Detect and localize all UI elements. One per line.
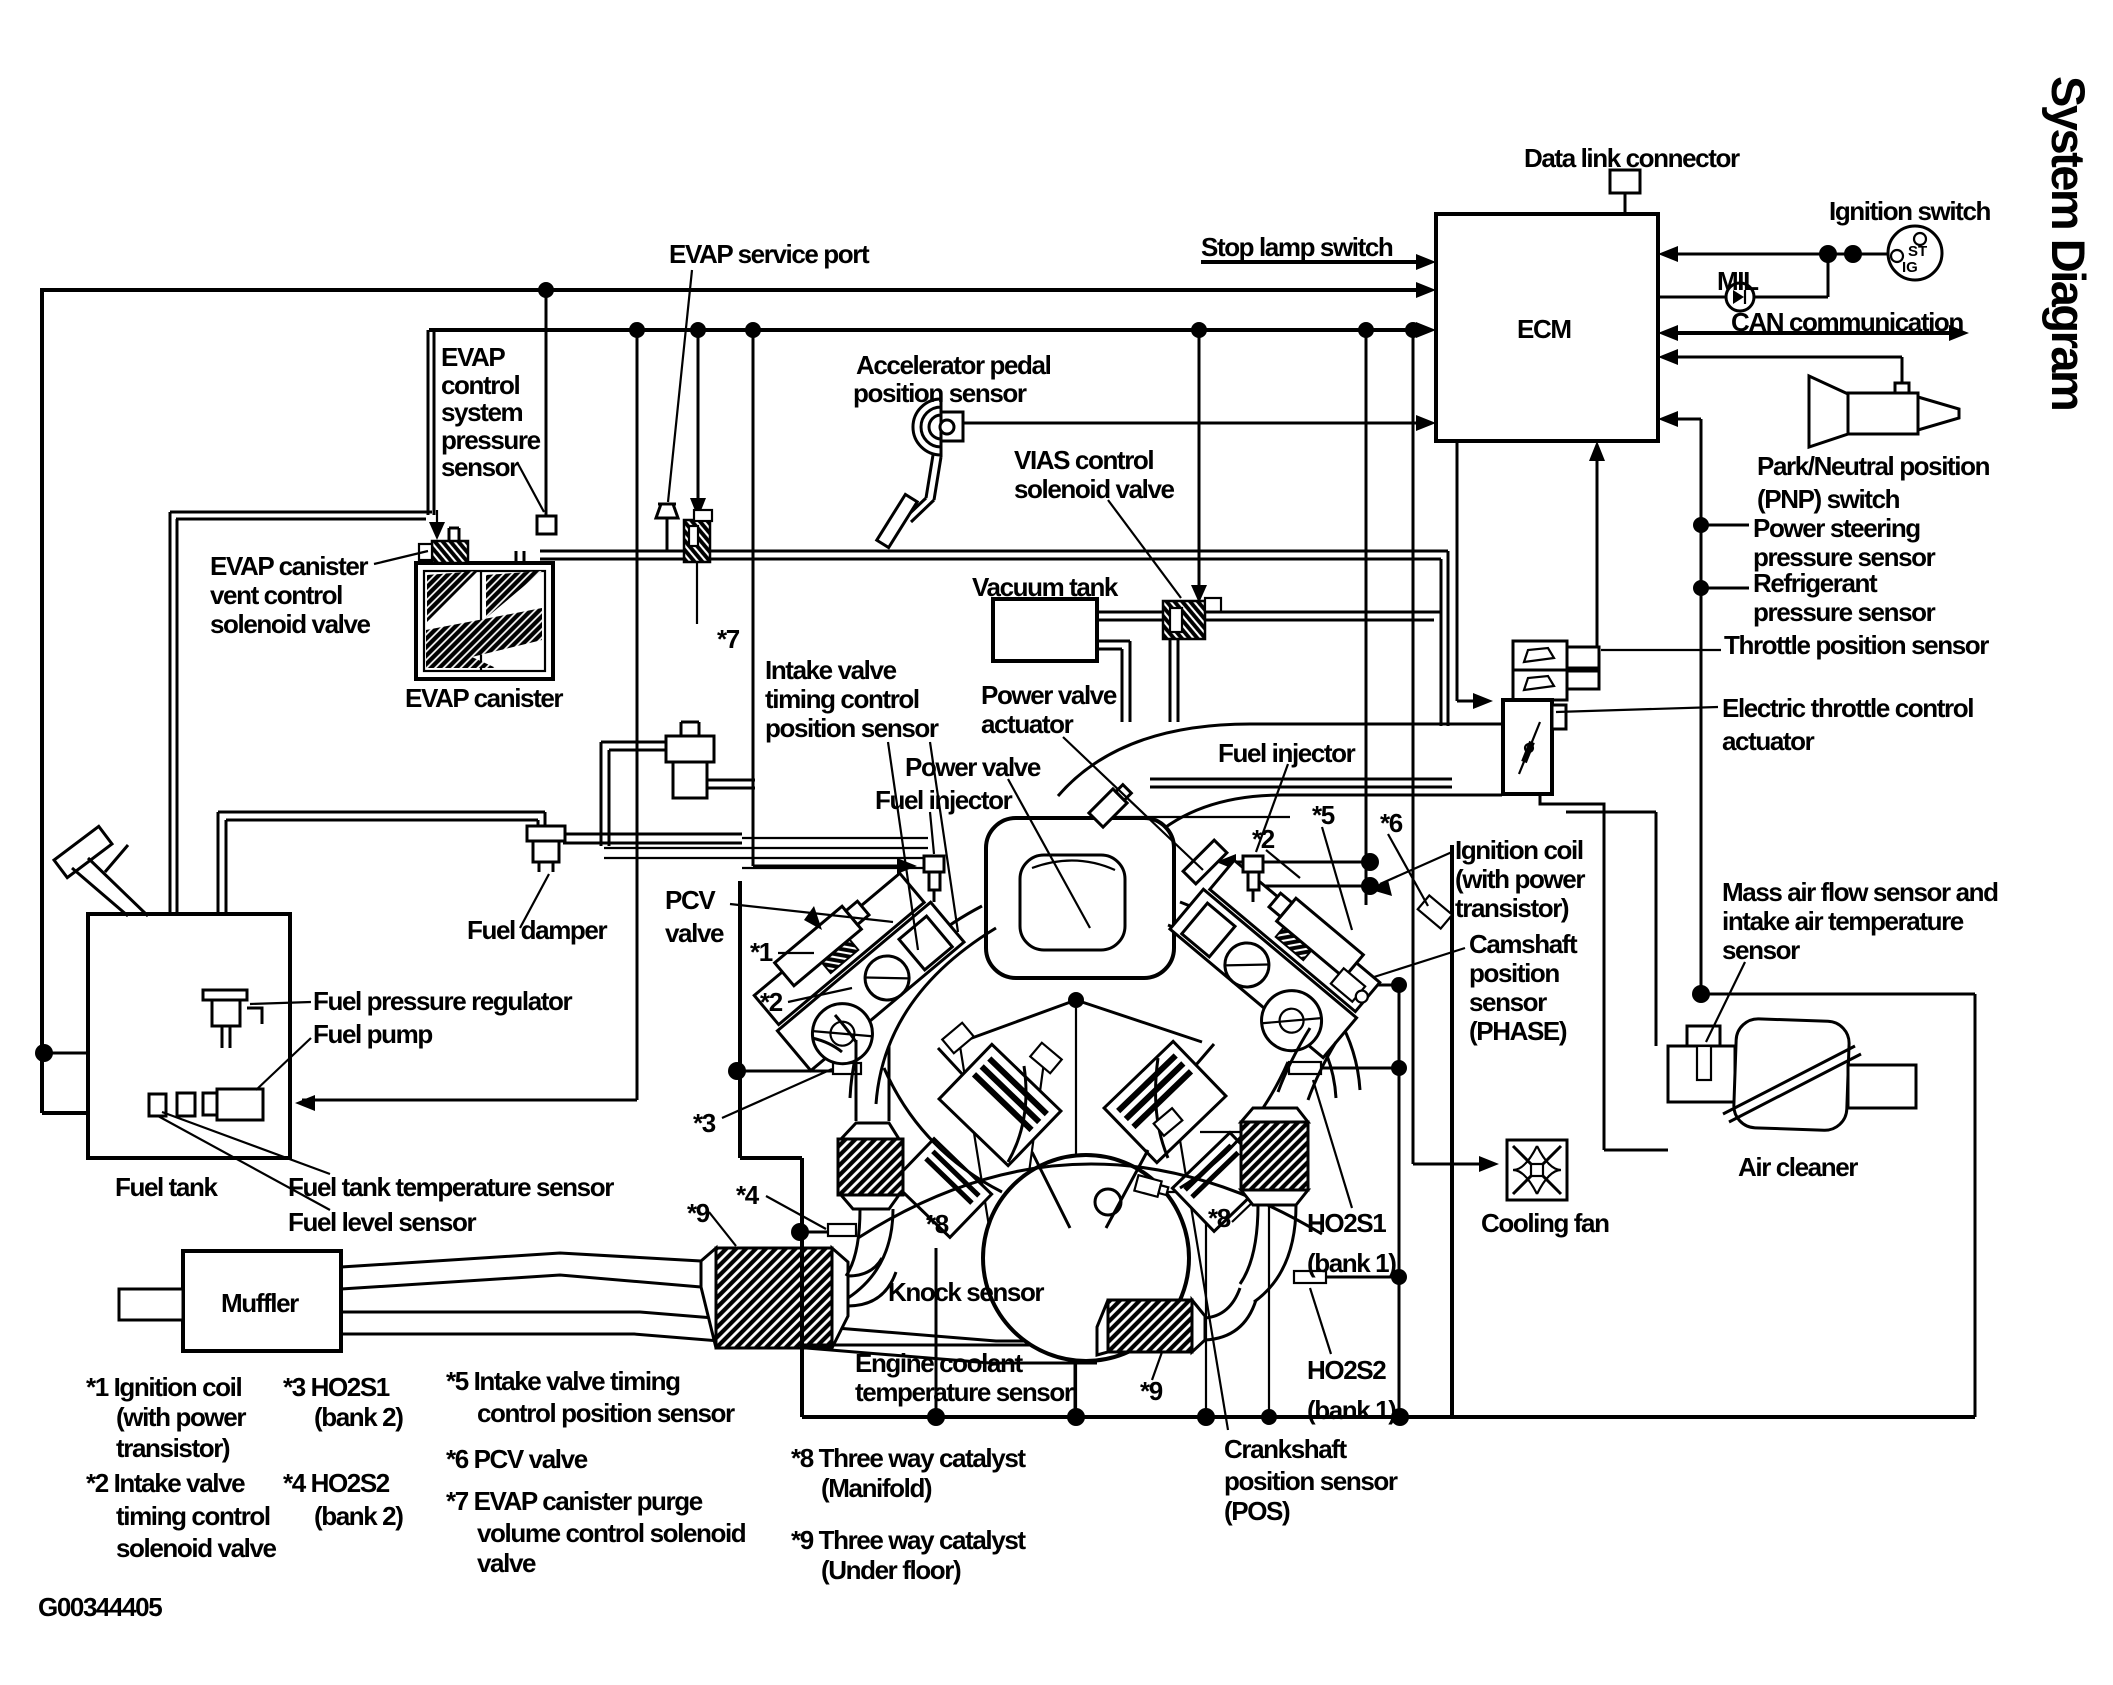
leader electric throttle control actuator [1556,707,1718,712]
intake valve timing control solenoid valve left [601,742,666,846]
svg-text:position sensor: position sensor [1224,1466,1398,1496]
wire fuel feed riser [218,812,226,988]
air cleaner [1733,1018,1850,1131]
svg-text:(POS): (POS) [1224,1496,1290,1526]
wire ECM to throttle actuator [1457,441,1481,701]
pipe vacuum tank to VIAS valve [1097,612,1163,620]
svg-text:G00344405: G00344405 [38,1592,162,1622]
svg-text:(with power: (with power [1455,864,1585,894]
wire throttle sensor to ECM [1596,452,1599,660]
EVAP service port [666,518,669,551]
svg-text:Fuel level sensor: Fuel level sensor [288,1207,476,1237]
leader knock sensor [960,1046,1044,1276]
leader fuel tank temperature sensor [162,1112,330,1174]
intake duct from plenum to throttle [1058,724,1502,838]
svg-text:Park/Neutral position: Park/Neutral position [1757,451,1990,481]
EVAP control system pressure sensor box [537,516,556,534]
junction dots [538,282,554,298]
svg-text:*1: *1 [750,937,773,967]
engine coolant temperature sensor symbol [1134,1175,1169,1199]
fuel pressure regulator [203,990,247,1026]
pipe VIAS valve to plenum [1170,639,1178,722]
svg-text:*2: *2 [760,987,783,1017]
knock sensor left [942,1023,973,1054]
intake plenum [986,818,1174,978]
wire damper to rail [563,834,742,843]
svg-text:timing control: timing control [765,684,919,714]
left lower piston [892,1139,991,1238]
svg-text:*2: *2 [1252,824,1275,854]
wire pressure sensor stem [545,290,548,516]
svg-text:Fuel tank temperature sensor: Fuel tank temperature sensor [288,1172,614,1202]
muffler [183,1251,341,1351]
fuel level sensor box [177,1093,195,1116]
wire PNP switch [1670,357,1902,383]
svg-text:Fuel injector: Fuel injector [1218,738,1356,768]
wire crank sensor ground [1200,1132,1269,1417]
svg-text:VIAS control: VIAS control [1014,445,1153,475]
svg-text:valve: valve [665,918,724,948]
right intake runner [1168,902,1360,1098]
wire stop lamp switch [1201,260,1424,264]
svg-text:control position sensor: control position sensor [477,1398,735,1428]
leader *2 left [788,988,852,1002]
svg-text:IG: IG [1902,259,1918,276]
ignition coil right [1265,889,1363,978]
wire cooling fan feed [1413,330,1488,1164]
VIAS control solenoid valve [1163,601,1205,639]
svg-text:Ignition switch: Ignition switch [1829,196,1991,226]
leader fuel level sensor [158,1116,330,1210]
svg-text:valve: valve [477,1548,536,1578]
svg-text:*5: *5 [1312,800,1335,830]
svg-text:*7: *7 [717,624,740,654]
leader fuel damper [520,874,549,928]
MIL lamp [1726,283,1754,311]
right cylinder bank [1156,857,1384,1074]
svg-text:EVAP: EVAP [441,342,505,372]
accelerator pedal position sensor [913,397,941,457]
leader vent valve [374,551,428,564]
three way catalyst *8 left [841,1123,899,1139]
svg-text:*7 EVAP canister purge: *7 EVAP canister purge [446,1486,703,1516]
right bank fuel rail [1150,779,1452,787]
leader fuel pump [256,1038,311,1090]
svg-text:*8: *8 [926,1209,949,1239]
wire crank valley ground [1075,1002,1077,1417]
camshaft position sensor symbol [1331,968,1373,1008]
svg-text:*6 PCV valve: *6 PCV valve [446,1444,588,1474]
left cylinder bank [750,870,978,1087]
canister top pipes [449,528,524,563]
wire right box side [1974,994,1977,1417]
svg-text:(bank 2): (bank 2) [314,1501,403,1531]
wire HO2S2 bank2 ground [935,1248,938,1417]
svg-text:Camshaft: Camshaft [1469,929,1578,959]
fuel injector left [924,856,944,872]
svg-text:solenoid valve: solenoid valve [116,1533,277,1563]
crankcase [983,1155,1189,1361]
left intake runner [850,906,996,1104]
wire fuel feed to damper [218,812,545,826]
svg-text:(Under floor): (Under floor) [821,1555,961,1585]
svg-text:transistor): transistor) [1455,893,1569,923]
svg-text:Data link connector: Data link connector [1524,143,1740,173]
right exhaust manifold pipe [1278,1028,1336,1100]
wire HO2S bank1 riser [1321,985,1399,1417]
svg-text:Electric throttle control: Electric throttle control [1722,693,1973,723]
leader *1 [778,952,814,954]
svg-text:*1 Ignition coil: *1 Ignition coil [86,1372,241,1402]
svg-text:(PNP) switch: (PNP) switch [1757,484,1900,514]
svg-text:Mass air flow sensor and: Mass air flow sensor and [1722,877,1998,907]
leader *3 [722,1069,832,1118]
wire EVAP purge pipe [540,551,1448,726]
leader fuel pressure regulator [250,1002,311,1004]
leader HO2S2 bank1 [1310,1288,1331,1354]
fuel tank [88,914,290,1158]
svg-text:Engine coolant: Engine coolant [855,1348,1023,1378]
leader ignition coil right [1380,852,1452,884]
svg-text:(bank 1): (bank 1) [1307,1395,1396,1425]
wire fuel tank feed bottom [42,1111,150,1115]
wire right injector feed [1228,330,1366,905]
wire CAN communication [1670,331,1957,335]
svg-text:Fuel pump: Fuel pump [313,1019,432,1049]
three way catalyst *8 right [1241,1108,1308,1122]
leader *4 [766,1196,826,1229]
svg-text:Fuel pressure regulator: Fuel pressure regulator [313,986,572,1016]
svg-text:MIL: MIL [1717,266,1759,296]
leader *8 right [1232,1176,1280,1222]
HO2S1 bank1 sensor [1289,1062,1321,1074]
wire left border vertical [40,288,44,1113]
fuel tank temperature sensor box [149,1094,166,1116]
svg-text:*9 Three way catalyst: *9 Three way catalyst [791,1525,1026,1555]
svg-text:ECM: ECM [1517,314,1571,344]
svg-text:ST: ST [1908,243,1927,260]
svg-text:Muffler: Muffler [221,1288,299,1318]
svg-text:*4: *4 [736,1180,760,1210]
wire power steering stub [1701,524,1749,527]
leader throttle position sensor [1601,649,1721,651]
svg-text:Power valve: Power valve [905,752,1041,782]
svg-text:Accelerator pedal: Accelerator pedal [856,350,1051,380]
ignition coil left *1 [775,897,873,986]
three way catalyst *9 center [1097,1300,1108,1355]
wire EVAP vent frame left [170,512,177,914]
pipe VIAS valve to plenum duct right [1205,612,1441,620]
wire fuel pump power [302,330,637,1100]
wire right box top [1701,993,1975,996]
left fuel rail [604,838,928,868]
leader PCV valve [730,904,893,922]
intake air duct to air cleaner [1540,780,1668,1150]
right lower piston [1172,1133,1271,1232]
leader *2 right [1266,850,1300,878]
three way catalyst *9 under floor left [701,1248,716,1348]
fuel injector center on plenum [1089,782,1134,827]
svg-text:vent control: vent control [210,580,342,610]
wire accelerator pedal sensor [961,422,1424,425]
wire refrigerant stub [1701,587,1749,590]
HO2S1 bank2 sensor *3 [833,1063,861,1074]
leader *9 bottom [1152,1352,1162,1380]
wire ignition to MIL [1827,254,1830,297]
fuel damper [527,826,565,841]
svg-text:Knock sensor: Knock sensor [888,1277,1044,1307]
svg-text:*9: *9 [687,1198,710,1228]
svg-text:HO2S2: HO2S2 [1307,1355,1386,1385]
svg-text:actuator: actuator [981,709,1074,739]
wire sensor bus right [1670,419,1701,994]
wire fuel level branch [44,1053,185,1092]
svg-text:intake air temperature: intake air temperature [1722,906,1964,936]
svg-text:*8 Three way catalyst: *8 Three way catalyst [791,1443,1026,1473]
HO2S2 bank2 sensor *4 [828,1224,856,1236]
PCV valve right symbol [1418,895,1453,928]
cooling fan [1507,1140,1567,1200]
leader intake valve timing position sensor [888,742,958,950]
svg-text:pressure sensor: pressure sensor [1753,597,1936,627]
wire ECT sensor ground [1165,1192,1206,1417]
leader power valve [1008,779,1090,928]
left exhaust manifold pipe [812,1015,856,1052]
wire second bus [429,328,1424,332]
data link connector [1610,170,1640,193]
vacuum tank [993,599,1097,661]
svg-text:position sensor: position sensor [853,378,1027,408]
leader engine coolant temperature sensor [1048,1198,1146,1349]
leader VIAS valve [1108,500,1181,598]
wire left injector feed [753,330,905,866]
svg-text:pressure: pressure [441,425,541,455]
leader HO2S1 bank1 [1313,1080,1352,1208]
crankshaft position sensor symbol [1154,1108,1183,1136]
svg-text:Power steering: Power steering [1753,513,1920,543]
engine coolant text box [802,1345,1075,1417]
svg-text:*9: *9 [1140,1376,1163,1406]
wire ignition switch [1670,253,1888,256]
svg-text:timing control: timing control [116,1501,270,1531]
svg-text:Stop lamp switch: Stop lamp switch [1201,232,1393,262]
leader pressure sensor [517,462,544,512]
leader camshaft position sensor [1352,948,1465,984]
ignition switch [1888,226,1942,280]
exhaust pipe lower to center catalyst [341,1312,1097,1363]
wire bottom sensor bus [802,1415,1975,1419]
fuel injector right [1243,856,1263,872]
pipe vacuum tank lower to plenum [1097,641,1130,722]
leader fuel injector right [1256,764,1288,852]
knock sensor right [1030,1043,1061,1074]
svg-text:Fuel damper: Fuel damper [467,915,607,945]
wire EVAP vent frame top [170,512,432,519]
svg-text:*3 HO2S1: *3 HO2S1 [283,1372,390,1402]
svg-text:solenoid valve: solenoid valve [1014,474,1175,504]
EVAP canister purge volume control solenoid valve *7 [684,520,710,562]
fuel pump [217,1089,263,1120]
wire purge valve drop [697,330,700,505]
svg-text:CAN communication: CAN communication [1731,307,1963,337]
power valve actuator symbol [1183,840,1227,884]
engine block left boundary [740,881,802,1417]
svg-text:*5 Intake valve timing: *5 Intake valve timing [446,1366,680,1396]
svg-text:*3: *3 [693,1108,716,1138]
electric throttle control actuator [1503,700,1552,794]
svg-text:actuator: actuator [1722,726,1815,756]
park neutral position switch [1809,376,1848,447]
leader mass air flow sensor [1706,962,1745,1042]
svg-text:System Diagram: System Diagram [2042,76,2095,409]
svg-text:Fuel tank: Fuel tank [115,1172,218,1202]
svg-text:EVAP service port: EVAP service port [669,239,870,269]
wire MIL line [1658,296,1828,299]
EVAP canister [416,563,553,679]
leader *9 left [709,1212,736,1246]
leader fuel injector left [930,812,934,854]
svg-text:Air cleaner: Air cleaner [1738,1152,1858,1182]
leader *5 [1322,827,1352,930]
engine right boundary [1450,845,1454,1417]
svg-text:system: system [441,397,522,427]
svg-text:*8: *8 [1208,1203,1231,1233]
svg-text:position sensor: position sensor [765,713,939,743]
svg-text:Throttle position sensor: Throttle position sensor [1724,630,1989,660]
svg-text:control: control [441,370,519,400]
svg-text:PCV: PCV [665,885,716,915]
svg-text:EVAP canister: EVAP canister [210,551,368,581]
svg-text:Fuel injector: Fuel injector [875,785,1013,815]
svg-text:solenoid valve: solenoid valve [210,609,371,639]
fuel filler neck [54,826,112,877]
svg-text:*6: *6 [1380,808,1403,838]
V block valley [938,1000,1214,1130]
wire VIAS drop [1198,330,1201,592]
throttle position sensor [1513,641,1567,700]
wire main top bus [42,288,1424,292]
svg-text:(PHASE): (PHASE) [1469,1016,1567,1046]
svg-text:sensor: sensor [1469,987,1547,1017]
svg-text:*2 Intake valve: *2 Intake valve [86,1468,245,1498]
svg-text:sensor: sensor [441,452,519,482]
svg-text:Refrigerant: Refrigerant [1753,568,1878,598]
svg-text:*4 HO2S2: *4 HO2S2 [283,1468,390,1498]
svg-text:(bank 1): (bank 1) [1307,1248,1396,1278]
mass air flow sensor housing [1668,1046,1735,1102]
svg-text:Crankshaft: Crankshaft [1224,1434,1348,1464]
left piston [939,1044,1061,1165]
svg-text:HO2S1: HO2S1 [1307,1208,1386,1238]
svg-text:EVAP canister: EVAP canister [405,683,563,713]
svg-text:(with power: (with power [116,1402,246,1432]
svg-text:Power valve: Power valve [981,680,1117,710]
HO2S2 bank1 sensor [1294,1271,1326,1283]
svg-text:position: position [1469,958,1559,988]
svg-text:temperature sensor: temperature sensor [855,1377,1074,1407]
leader crankshaft position sensor [1180,1140,1228,1430]
ECM box [1436,214,1658,441]
svg-text:volume control solenoid: volume control solenoid [477,1518,746,1548]
wire EVAP purge line drop [428,330,434,515]
svg-text:(Manifold): (Manifold) [821,1473,932,1503]
svg-text:(bank 2): (bank 2) [314,1402,403,1432]
exhaust pipe upper to underfloor catalyst [341,1253,701,1289]
EVAP canister vent control solenoid valve [432,541,468,563]
leader EVAP service port [668,270,692,502]
svg-text:Intake valve: Intake valve [765,655,897,685]
svg-text:Cooling fan: Cooling fan [1481,1208,1609,1238]
svg-text:sensor: sensor [1722,935,1800,965]
right piston [1104,1041,1226,1162]
leader *8 left [898,1174,938,1226]
svg-text:Ignition coil: Ignition coil [1455,835,1583,865]
svg-text:transistor): transistor) [116,1433,230,1463]
leader *6 [1388,834,1428,906]
